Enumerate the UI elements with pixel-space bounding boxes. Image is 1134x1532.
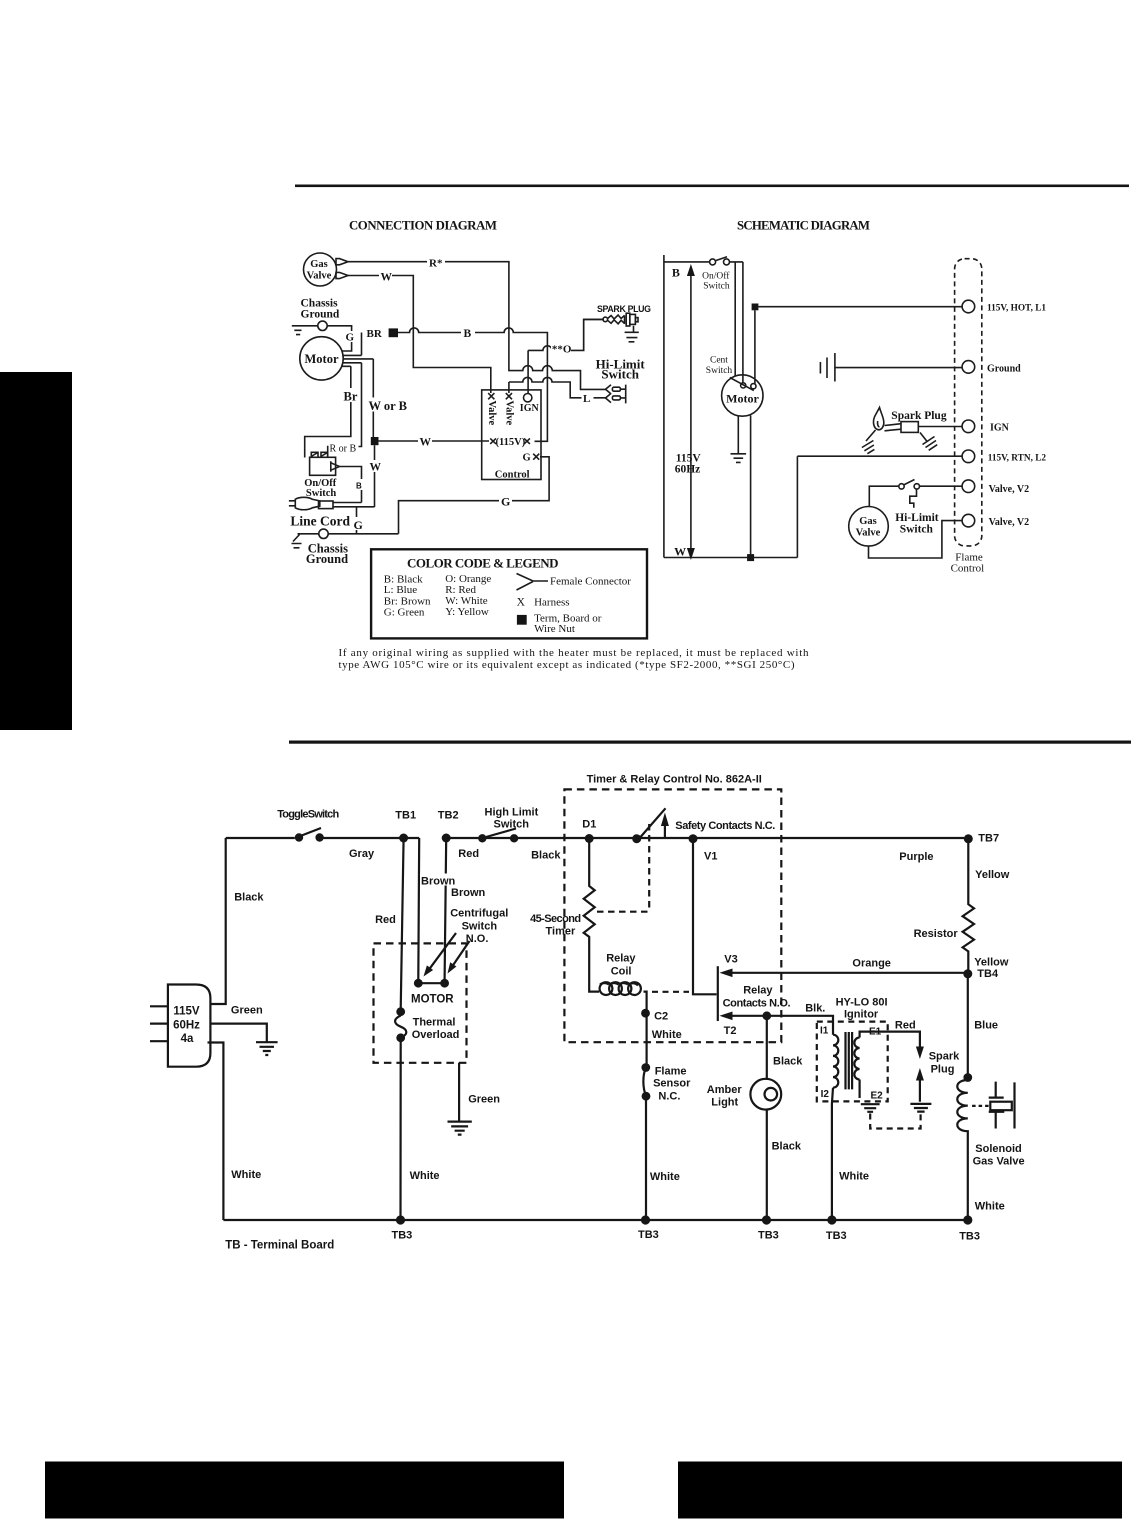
svg-text:W or B: W or B <box>369 399 407 413</box>
svg-text:Black: Black <box>234 892 264 904</box>
svg-text:B: B <box>464 328 472 340</box>
svg-text:TB3: TB3 <box>392 1230 413 1242</box>
svg-text:Gas: Gas <box>859 516 877 527</box>
svg-text:Blue: Blue <box>974 1020 998 1032</box>
svg-text:Valve: Valve <box>503 401 514 426</box>
svg-text:TB1: TB1 <box>395 810 416 822</box>
svg-text:Valve: Valve <box>486 401 497 426</box>
svg-text:MOTOR: MOTOR <box>411 994 454 1006</box>
svg-text:W: W <box>381 272 393 284</box>
svg-text:T2: T2 <box>724 1025 737 1037</box>
svg-text:Red: Red <box>375 914 396 926</box>
svg-text:45-Second: 45-Second <box>530 913 581 925</box>
svg-text:Red: Red <box>895 1020 916 1032</box>
svg-text:White: White <box>650 1171 680 1183</box>
svg-text:Ignitor: Ignitor <box>844 1009 879 1021</box>
svg-text:Y: Yellow: Y: Yellow <box>445 606 489 618</box>
svg-text:SPARK PLUG: SPARK PLUG <box>597 304 651 314</box>
svg-text:TB2: TB2 <box>438 810 459 822</box>
svg-text:Motor: Motor <box>304 352 338 366</box>
svg-text:CONNECTION DIAGRAM: CONNECTION DIAGRAM <box>349 219 497 233</box>
svg-text:IGN: IGN <box>520 403 540 414</box>
svg-text:D1: D1 <box>582 819 596 831</box>
svg-text:Contacts N.O.: Contacts N.O. <box>723 998 791 1010</box>
svg-text:TB7: TB7 <box>978 833 999 845</box>
svg-text:White: White <box>652 1029 682 1041</box>
svg-text:L: L <box>583 393 590 405</box>
svg-text:Yellow: Yellow <box>975 869 1010 881</box>
svg-text:W: W <box>674 545 686 559</box>
svg-text:Blk.: Blk. <box>805 1003 825 1015</box>
svg-text:R*: R* <box>429 258 443 270</box>
svg-text:Purple: Purple <box>899 851 933 863</box>
svg-text:Female Connector: Female Connector <box>550 576 631 588</box>
svg-text:Plug: Plug <box>931 1064 955 1076</box>
svg-text:G: G <box>354 518 363 532</box>
svg-text:Overload: Overload <box>412 1029 460 1041</box>
svg-text:Coil: Coil <box>611 966 632 978</box>
svg-text:W: W <box>420 437 432 449</box>
svg-text:Safety Contacts N.C.: Safety Contacts N.C. <box>675 820 775 832</box>
svg-text:Flame: Flame <box>655 1066 687 1078</box>
svg-text:Ground: Ground <box>987 363 1021 374</box>
svg-text:Brown: Brown <box>451 887 486 899</box>
svg-text:Chassis: Chassis <box>301 298 339 310</box>
svg-text:Timer & Relay Control No. 862A: Timer & Relay Control No. 862A-II <box>587 774 762 786</box>
svg-text:Valve, V2: Valve, V2 <box>989 517 1030 528</box>
svg-text:TB - Terminal Board: TB - Terminal Board <box>225 1240 334 1252</box>
svg-text:ToggleSwitch: ToggleSwitch <box>277 809 339 821</box>
svg-text:Light: Light <box>711 1097 738 1109</box>
svg-text:115V, HOT, L1: 115V, HOT, L1 <box>987 304 1046 314</box>
svg-text:G: G <box>346 332 355 344</box>
svg-text:Green: Green <box>231 1005 263 1017</box>
svg-text:Timer: Timer <box>546 926 576 938</box>
svg-text:Switch: Switch <box>601 367 639 382</box>
svg-text:type AWG 105°C wire or its equ: type AWG 105°C wire or its equivalent ex… <box>339 659 795 671</box>
svg-text:Sensor: Sensor <box>653 1078 691 1090</box>
svg-text:White: White <box>231 1169 261 1181</box>
svg-text:SCHEMATIC DIAGRAM: SCHEMATIC DIAGRAM <box>737 219 870 233</box>
svg-text:On/Off: On/Off <box>702 271 730 282</box>
svg-text:Br: Br <box>344 390 358 404</box>
svg-text:G: G <box>523 453 531 464</box>
svg-text:Br: Brown: Br: Brown <box>384 595 431 607</box>
svg-text:N.O.: N.O. <box>466 933 489 945</box>
svg-text:R or B: R or B <box>330 443 357 454</box>
svg-text:Yellow: Yellow <box>974 957 1009 969</box>
svg-text:Thermal: Thermal <box>413 1017 456 1029</box>
svg-text:Switch: Switch <box>494 819 530 831</box>
svg-text:Gray: Gray <box>349 848 375 860</box>
svg-text:115V, RTN, L2: 115V, RTN, L2 <box>988 454 1047 464</box>
svg-text:TB4: TB4 <box>977 968 999 980</box>
svg-text:4a: 4a <box>181 1033 194 1045</box>
svg-text:Orange: Orange <box>852 958 891 970</box>
svg-text:If any original wiring as supp: If any original wiring as supplied with … <box>339 647 810 659</box>
svg-text:Valve: Valve <box>307 271 332 282</box>
svg-text:Valve, V2: Valve, V2 <box>989 484 1030 495</box>
svg-text:TB3: TB3 <box>959 1231 980 1243</box>
svg-text:C2: C2 <box>654 1011 668 1023</box>
svg-text:V3: V3 <box>724 954 737 966</box>
svg-text:I1: I1 <box>820 1026 829 1037</box>
svg-text:X: X <box>517 597 526 609</box>
svg-text:E1: E1 <box>869 1027 882 1038</box>
svg-text:Green: Green <box>468 1094 500 1106</box>
svg-text:High Limit: High Limit <box>485 807 539 819</box>
svg-text:G: Green: G: Green <box>384 607 425 619</box>
svg-text:Black: Black <box>772 1141 802 1153</box>
svg-text:Gas Valve: Gas Valve <box>973 1156 1025 1168</box>
svg-text:W: White: W: White <box>445 595 488 607</box>
svg-text:Switch: Switch <box>706 366 733 376</box>
svg-text:Switch: Switch <box>462 921 498 933</box>
svg-text:Brown: Brown <box>421 876 456 888</box>
svg-text:Amber: Amber <box>707 1084 743 1096</box>
svg-text:BR: BR <box>367 328 383 340</box>
svg-text:White: White <box>410 1170 440 1182</box>
svg-text:Centrifugal: Centrifugal <box>450 908 508 920</box>
svg-text:60Hz: 60Hz <box>675 464 701 476</box>
svg-text:Switch: Switch <box>900 524 934 536</box>
svg-text:Gas: Gas <box>310 259 328 270</box>
svg-text:Solenoid: Solenoid <box>975 1143 1021 1155</box>
svg-text:60Hz: 60Hz <box>173 1020 200 1032</box>
svg-text:I2: I2 <box>821 1089 830 1100</box>
svg-text:V1: V1 <box>704 851 717 863</box>
svg-text:Relay: Relay <box>606 953 636 965</box>
svg-text:Control: Control <box>951 563 985 575</box>
svg-text:(115V): (115V) <box>496 437 526 448</box>
svg-text:White: White <box>839 1171 869 1183</box>
svg-text:Cent: Cent <box>710 356 728 366</box>
svg-text:Line Cord: Line Cord <box>290 514 350 529</box>
svg-text:Switch: Switch <box>306 488 336 499</box>
svg-text:E2: E2 <box>871 1091 884 1102</box>
svg-text:G: G <box>501 495 510 509</box>
svg-text:B: B <box>356 482 362 491</box>
svg-text:Black: Black <box>773 1056 803 1068</box>
svg-text:COLOR CODE & LEGEND: COLOR CODE & LEGEND <box>407 556 559 571</box>
svg-text:Ground: Ground <box>306 552 348 566</box>
svg-text:Black: Black <box>531 850 561 862</box>
svg-text:TB3: TB3 <box>638 1229 659 1241</box>
svg-text:115V: 115V <box>173 1006 200 1018</box>
svg-text:Spark: Spark <box>929 1051 960 1063</box>
svg-text:**O: **O <box>552 344 572 356</box>
svg-text:Red: Red <box>458 848 479 860</box>
svg-text:White: White <box>975 1201 1005 1213</box>
svg-text:Switch: Switch <box>703 282 730 292</box>
svg-text:IGN: IGN <box>990 422 1010 433</box>
svg-text:Motor: Motor <box>726 392 759 406</box>
svg-text:Control: Control <box>495 470 530 481</box>
svg-text:TB3: TB3 <box>758 1230 779 1242</box>
svg-text:W: W <box>370 462 382 474</box>
svg-text:Harness: Harness <box>534 597 569 609</box>
svg-text:Spark Plug: Spark Plug <box>891 410 947 422</box>
svg-text:Valve: Valve <box>856 528 881 539</box>
svg-text:Wire Nut: Wire Nut <box>534 623 575 635</box>
svg-text:B: B <box>672 265 680 279</box>
svg-text:Hi-Limit: Hi-Limit <box>895 512 939 524</box>
svg-text:N.C.: N.C. <box>658 1091 680 1103</box>
svg-text:Resistor: Resistor <box>914 928 959 940</box>
svg-text:Ground: Ground <box>301 309 340 321</box>
svg-text:HY-LO 80I: HY-LO 80I <box>836 997 888 1009</box>
svg-text:Relay: Relay <box>743 985 773 997</box>
svg-text:TB3: TB3 <box>826 1230 847 1242</box>
